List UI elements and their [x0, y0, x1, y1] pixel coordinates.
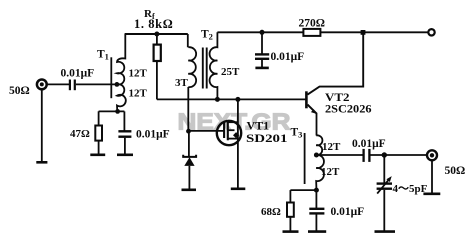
- svg-text:47Ω: 47Ω: [70, 128, 90, 140]
- capacitor C5 0.01uF series: [364, 149, 370, 162]
- wire C2 top lead: [123, 111, 125, 130]
- terminal output top: [428, 29, 434, 35]
- svg-text:3T: 3T: [175, 77, 189, 89]
- mosfet VT1 gate bar: [223, 122, 225, 138]
- ground var cap: [375, 230, 396, 233]
- variable capacitor C6 arrowhead: [386, 176, 391, 182]
- node C3 top: [260, 30, 265, 35]
- ground C3: [255, 67, 268, 70]
- wire C4 bottom lead: [315, 215, 317, 232]
- svg-text:50Ω: 50Ω: [445, 165, 466, 177]
- mosfet VT1 circle: [217, 121, 241, 145]
- svg-text:68Ω: 68Ω: [261, 206, 281, 218]
- node 25T bottom: [215, 97, 220, 102]
- svg-text:4～5pF: 4～5pF: [393, 183, 428, 195]
- node collector junction: [361, 30, 366, 35]
- transformer T2 winding 3T: [188, 47, 196, 87]
- node var-cap junction: [382, 152, 387, 157]
- wire C1 to T1 tap: [76, 83, 116, 85]
- wire R2 bottom lead: [98, 141, 100, 155]
- svg-text:T2: T2: [201, 29, 213, 42]
- diode VD triangle: [184, 157, 194, 166]
- mosfet VT1 drain stub: [228, 121, 238, 123]
- svg-text:T1: T1: [97, 49, 109, 62]
- wire Rf bottom lead: [156, 61, 158, 99]
- variable capacitor C6 arrow: [377, 178, 390, 193]
- svg-text:12T: 12T: [129, 68, 148, 80]
- ground input: [36, 161, 47, 164]
- wire emitter down to T3: [316, 113, 318, 136]
- svg-text:2SC2026: 2SC2026: [325, 104, 372, 116]
- svg-text:1. 8kΩ: 1. 8kΩ: [134, 17, 173, 31]
- wire top rail corner down to T2: [187, 34, 189, 47]
- connector J1 input: [37, 80, 47, 90]
- wire C2 bottom lead: [124, 138, 126, 155]
- capacitor C3 0.01uF decoupling lead: [261, 32, 263, 54]
- wire 270 to terminal: [320, 31, 428, 33]
- ground C4: [308, 230, 326, 233]
- wire T3 bottom to R4: [290, 189, 316, 191]
- node Rf top: [154, 32, 159, 37]
- svg-text:50Ω: 50Ω: [9, 85, 30, 97]
- ground R2: [90, 154, 105, 157]
- svg-text:0.01μF: 0.01μF: [61, 68, 95, 80]
- ground R4: [283, 230, 299, 233]
- svg-text:270Ω: 270Ω: [299, 18, 325, 30]
- transistor VT2 emitter arrowhead: [311, 109, 317, 114]
- capacitor C3 plates: [255, 54, 269, 58]
- transformer T3 core: [304, 133, 306, 184]
- svg-text:0.01μF: 0.01μF: [271, 51, 305, 63]
- svg-text:SD201: SD201: [246, 133, 288, 145]
- wire C5 to output connector: [371, 154, 428, 156]
- svg-text:VT1: VT1: [247, 119, 270, 133]
- diode VD cathode bar: [183, 155, 196, 157]
- node T3 bottom junction: [314, 188, 319, 193]
- mosfet VT1 channel bar: [227, 120, 229, 140]
- transformer T1 core: [110, 57, 112, 98]
- node drain line top: [235, 97, 240, 102]
- svg-text:VT2: VT2: [325, 90, 350, 104]
- diode VD anode lead: [188, 131, 190, 156]
- wire output connector ground lead: [431, 160, 433, 193]
- mosfet VT1 body stub: [228, 129, 235, 131]
- svg-text:12T: 12T: [129, 88, 148, 100]
- svg-text:T3: T3: [291, 127, 303, 140]
- transistor VT2 base bar: [305, 91, 308, 108]
- mosfet VT1 arrow diamond: [233, 132, 239, 138]
- wire top rail right: [217, 31, 303, 33]
- wire R2 top lead: [98, 111, 100, 125]
- transistor VT2 emitter: [308, 105, 317, 114]
- resistor R4 68ohm: [287, 203, 294, 217]
- wire gate from diode node: [189, 130, 225, 132]
- variable capacitor C6 plates: [377, 184, 392, 189]
- transformer T2 core: [203, 48, 207, 89]
- wire var cap bottom lead: [383, 190, 385, 232]
- wire C4 top lead: [315, 190, 317, 208]
- transformer T3 winding (12T+12T): [316, 135, 324, 190]
- capacitor C2 0.01uF: [118, 131, 131, 136]
- diode VD bottom lead: [188, 166, 190, 190]
- resistor Rf 1.8k: [154, 45, 161, 61]
- wire drain line down through mosfet: [237, 99, 239, 188]
- wire tap to C5: [316, 154, 362, 156]
- mosfet VT1 source stub: [228, 138, 238, 140]
- svg-text:0.01μF: 0.01μF: [136, 129, 170, 141]
- wire top rail left: [125, 33, 188, 35]
- node T1 tap: [115, 82, 120, 87]
- wire Rf top lead: [156, 34, 158, 45]
- node gate-diode junction: [186, 129, 191, 134]
- wire var cap top lead: [383, 155, 385, 183]
- ground diode: [182, 189, 197, 192]
- connector J2 output: [427, 150, 437, 160]
- wire input connector ground lead: [41, 89, 43, 162]
- capacitor C1 0.01uF: [70, 80, 75, 91]
- ground C2: [117, 154, 133, 157]
- wire mid rail: [157, 98, 307, 100]
- ground output connector: [423, 193, 440, 196]
- wire junction left to R2: [99, 110, 125, 112]
- svg-text:12T: 12T: [322, 141, 341, 153]
- svg-text:12T: 12T: [321, 166, 340, 178]
- capacitor C4 0.01uF: [309, 209, 324, 214]
- wire R4 top lead: [289, 190, 291, 202]
- resistor R3 270ohm: [303, 29, 320, 36]
- transformer T2 winding 25T: [210, 32, 218, 99]
- node T1 bottom junction: [115, 109, 120, 114]
- node T3 tap: [314, 153, 319, 158]
- transformer T1 winding (12T+12T tapped): [117, 34, 126, 111]
- svg-text:0.01μF: 0.01μF: [352, 138, 386, 150]
- wire R4 bottom lead: [289, 217, 291, 232]
- wire 3T bottom through rail to diode node: [187, 87, 189, 131]
- svg-text:25T: 25T: [221, 66, 240, 78]
- svg-text:0.01μF: 0.01μF: [331, 206, 365, 218]
- wire input to C1: [47, 83, 70, 85]
- resistor R2 47ohm: [95, 126, 102, 141]
- ground mosfet source: [231, 188, 246, 191]
- transistor VT2 collector: [308, 32, 364, 94]
- wire C3 bottom lead: [261, 60, 263, 68]
